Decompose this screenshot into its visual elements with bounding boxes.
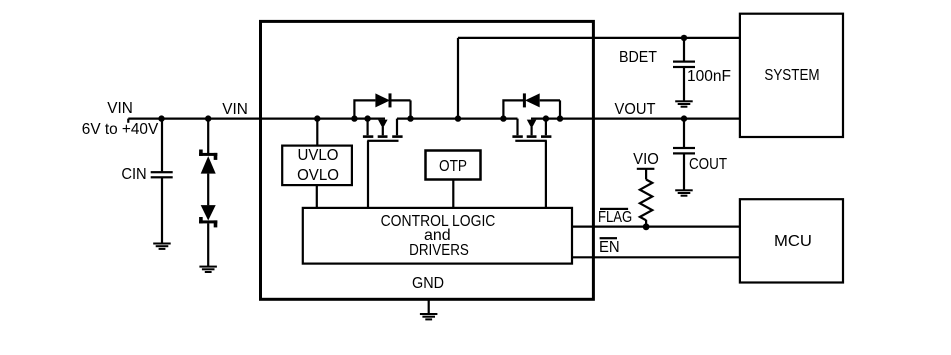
transistor Q1 MOSFET <box>363 119 403 142</box>
wire UVLO to control logic <box>316 185 318 208</box>
wire Q1 gate to control logic <box>367 141 369 208</box>
wire IC GND pin <box>428 299 430 313</box>
ground CIN <box>153 243 171 250</box>
label CIN <box>122 167 147 183</box>
ground TVS <box>199 266 217 273</box>
node BDET tap <box>455 115 461 121</box>
label 6V to +40V <box>82 122 158 138</box>
overline for EN <box>600 237 617 239</box>
label OTP <box>439 159 467 175</box>
SYSTEM box <box>740 14 843 137</box>
transistor Q1 body diode loop <box>354 100 410 118</box>
label VIO <box>633 152 659 168</box>
node Q2 diode anode <box>557 115 563 121</box>
label GND <box>412 276 444 292</box>
OTP block <box>426 151 481 180</box>
capacitor CIN <box>151 171 173 178</box>
wire BDET horizontal to SYSTEM <box>458 37 740 39</box>
ground IC GND <box>420 313 438 320</box>
label BDET <box>619 50 657 66</box>
wire BDET vertical tap <box>457 38 459 119</box>
wire TVS upper lead <box>207 119 209 154</box>
wire UVLO input tap <box>316 119 318 146</box>
wire EN to MCU <box>572 256 740 258</box>
zener diode D2 bottom <box>199 205 217 227</box>
transistor Q1 body diode symbol <box>375 93 391 107</box>
label VIN input <box>107 101 133 117</box>
wire Q2 gate to control logic <box>545 141 547 208</box>
wire 100nF lower lead <box>683 68 685 101</box>
label MCU <box>774 234 812 250</box>
capacitor C1 100nF <box>673 61 695 69</box>
label CONTROL LOGIC and DRIVERS <box>380 214 495 230</box>
wire resistor bottom to FLAG node <box>645 220 647 227</box>
transistor Q2 body diode symbol <box>523 93 540 107</box>
wire COUT lower lead <box>683 154 685 189</box>
node Q2 drain <box>500 115 506 121</box>
node 100nF tap <box>681 35 687 41</box>
wire 100nF upper lead <box>683 38 685 61</box>
label FLAG <box>598 210 632 226</box>
node CIN tap <box>158 115 164 121</box>
label UVLO OVLO <box>297 148 338 164</box>
wire OTP to control logic <box>452 180 454 208</box>
CONTROL LOGIC and DRIVERS block <box>303 208 572 264</box>
wire VIN rail left segment <box>128 117 385 119</box>
wire CIN lower lead <box>161 178 163 243</box>
wire rail VOUT segment <box>531 117 740 119</box>
resistor R1 VIO pull-up <box>640 180 652 221</box>
wire COUT upper lead <box>683 119 685 148</box>
zener diode D1 top <box>199 150 217 174</box>
ground COUT <box>675 189 693 196</box>
transistor Q2 MOSFET <box>512 119 551 142</box>
label SYSTEM <box>764 68 819 84</box>
capacitor COUT <box>673 147 695 155</box>
UVLO OVLO block <box>282 146 352 186</box>
wire TVS middle lead <box>207 174 209 206</box>
node Q2 source <box>543 115 549 121</box>
wire rail middle segment <box>397 117 518 119</box>
node COUT tap <box>681 115 687 121</box>
wire FLAG to MCU <box>572 226 740 228</box>
node junction dots <box>158 35 687 231</box>
MCU box <box>740 199 843 282</box>
node TVS tap <box>205 115 211 121</box>
node UVLO tap <box>314 115 320 121</box>
label EN <box>599 240 620 256</box>
label VOUT <box>615 102 656 118</box>
ground 100nF <box>675 100 693 107</box>
node Q1 diode anode <box>351 115 357 121</box>
wire CIN upper lead <box>161 119 163 172</box>
label VIN pin <box>223 102 249 118</box>
transistor Q2 body diode loop <box>503 100 560 118</box>
label COUT <box>689 157 727 173</box>
IC box U1 <box>261 21 594 299</box>
node Q1 source <box>364 115 370 121</box>
node FLAG resistor junction <box>643 223 650 230</box>
wire VIN rail input tick <box>127 119 129 123</box>
node Q1 drain <box>407 115 413 121</box>
label 100nF <box>687 69 731 85</box>
wire VIO pull-up resistor top terminal <box>637 169 655 180</box>
wire TVS lower lead <box>207 223 209 266</box>
overline for FLAG <box>600 208 628 210</box>
